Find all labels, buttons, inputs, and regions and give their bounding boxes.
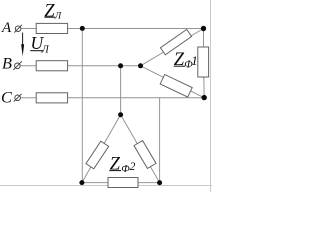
node triangle top vertex (118, 112, 123, 117)
wire: delta-1 lower diagonal (B node to C node) (141, 66, 205, 98)
node triangle bottom-left vertex (79, 180, 84, 185)
svg-text:Z: Z (44, 2, 55, 22)
svg-text:B: B (2, 54, 12, 73)
impedance box ZФ2 bottom side of delta receiver 2 (108, 178, 138, 188)
node bottom-right of delta-1 on line C (202, 95, 207, 100)
wire: vertical branch from node on line B down to triangle top vertex (120, 66, 122, 115)
label ZЛ (line impedance) (44, 2, 61, 22)
svg-text:2: 2 (130, 161, 136, 173)
terminal B (circle with slash) (13, 61, 22, 70)
impedance box ZФ2 right side of delta receiver 2 (134, 141, 156, 169)
terminal C (circle with slash) (14, 94, 22, 102)
wire: vertical branch from node on line A down to triangle bottom-left vertex (81, 29, 83, 183)
node on line A (junction to triangle branch) (80, 26, 85, 31)
svg-text:A: A (1, 20, 12, 36)
node delta-1 left vertex on line B (138, 63, 143, 68)
svg-text:Л: Л (41, 44, 50, 55)
svg-text:Л: Л (54, 11, 62, 21)
impedance box ZФ1 right vertical of delta receiver 1 (198, 47, 209, 77)
wire: triangle right side (top vertex to bottom-right) (121, 115, 160, 183)
wire: phase B horizontal from box to delta-1 left node (67, 65, 141, 67)
svg-text:1: 1 (191, 53, 198, 68)
wire: phase C horizontal from box to delta-1 bottom-right node (67, 97, 204, 99)
impedance box (line impedance) in line C (36, 93, 67, 103)
impedance box ZЛ in line A (36, 23, 67, 33)
wire: phase C horizontal from terminal to box (21, 97, 37, 99)
impedance box ZФ2 left side of delta receiver 2 (86, 141, 109, 169)
arrow UЛ (voltage arrow from A toward B) (21, 33, 24, 57)
node triangle bottom-right vertex (157, 180, 162, 185)
terminal A (circle with slash) (14, 25, 22, 33)
node on line B (junction to triangle branch) (118, 63, 123, 68)
svg-text:Z: Z (174, 50, 185, 70)
wire: triangle bottom side (82, 182, 160, 184)
wire: triangle left side (top vertex to bottom-left) (82, 115, 121, 183)
impedance box ZФ1 lower diagonal of delta receiver 1 (160, 75, 192, 98)
wire: delta-1 right vertical (A node to C node) (203, 29, 205, 79)
wire: phase A horizontal from terminal to box ZЛ (21, 28, 37, 30)
label ZФ1 (phase impedance of receiver 1) (174, 50, 198, 71)
impedance box (line impedance) in line B (36, 61, 67, 71)
wire: delta-1 upper diagonal (B node to A node) (141, 29, 204, 66)
wire: vertical branch from line C down to triangle bottom-right vertex (159, 98, 161, 183)
svg-text:C: C (1, 87, 13, 106)
svg-text:Z: Z (110, 154, 121, 174)
node top-right (line A / delta-1) (201, 26, 206, 31)
wire: phase A horizontal from box to top-right delta node (67, 28, 204, 30)
impedance box ZФ1 upper diagonal of delta receiver 1 (160, 29, 191, 54)
wire: phase B horizontal from terminal to box (20, 65, 36, 67)
label ZФ2 (phase impedance of receiver 2) (109, 154, 135, 175)
decorative frame lines (page cell border) (0, 185, 212, 187)
label UЛ (line voltage) (30, 33, 49, 56)
